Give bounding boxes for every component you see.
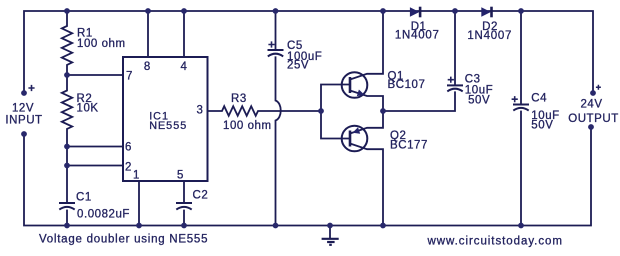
svg-text:Voltage doubler using NE555: Voltage doubler using NE555 [39,234,208,246]
svg-text:50V: 50V [468,95,490,107]
svg-text:4: 4 [181,61,188,73]
svg-text:100 ohm: 100 ohm [77,38,126,50]
svg-text:24V: 24V [580,99,602,111]
svg-text:100 ohm: 100 ohm [223,120,272,132]
svg-text:0.0082uF: 0.0082uF [77,209,130,221]
svg-text:7: 7 [126,70,133,82]
svg-text:1N4007: 1N4007 [467,30,512,42]
svg-text:www.circuitstoday.com: www.circuitstoday.com [427,235,563,247]
svg-text:C1: C1 [76,192,92,204]
svg-text:R3: R3 [231,93,247,105]
svg-text:1N4007: 1N4007 [395,29,440,41]
svg-text:1: 1 [133,169,140,181]
svg-text:C4: C4 [531,93,547,105]
svg-text:2: 2 [125,161,132,173]
svg-text:8: 8 [144,61,151,73]
svg-text:NE555: NE555 [149,120,187,132]
svg-text:50V: 50V [531,120,553,132]
svg-text:12V: 12V [12,103,34,115]
svg-text:BC177: BC177 [390,140,428,152]
svg-text:25V: 25V [287,60,309,72]
svg-text:INPUT: INPUT [5,114,42,126]
svg-text:10K: 10K [77,103,99,115]
svg-text:6: 6 [125,141,132,153]
svg-text:3: 3 [197,105,204,117]
svg-text:5: 5 [177,169,184,181]
svg-text:OUTPUT: OUTPUT [568,113,619,125]
svg-text:BC107: BC107 [388,79,426,91]
svg-text:C2: C2 [193,190,209,202]
